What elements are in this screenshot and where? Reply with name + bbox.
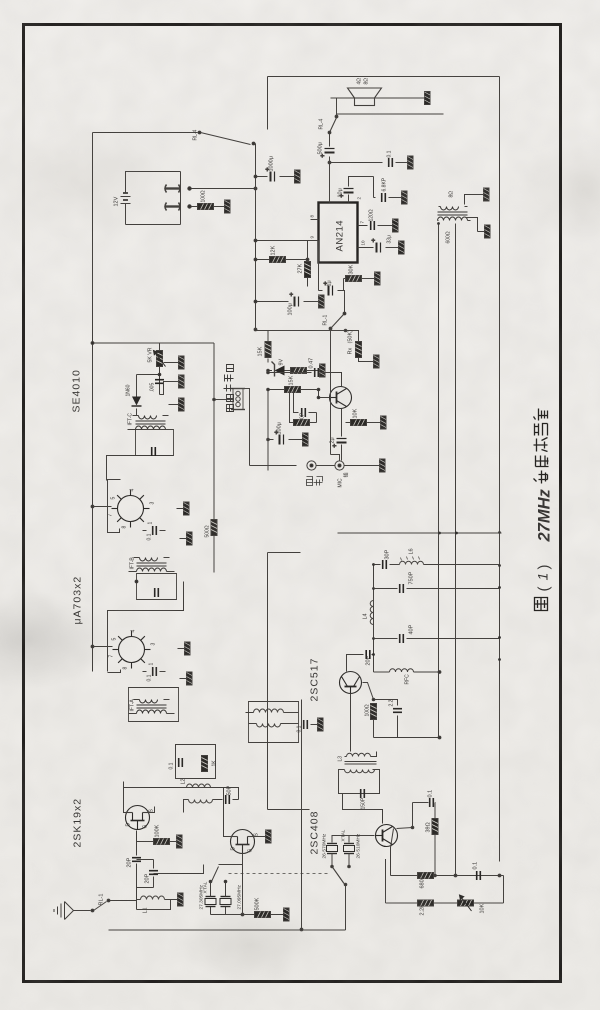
resistor base low — [293, 420, 317, 426]
mixer transformer T1 — [246, 702, 299, 743]
ground T1 — [311, 718, 324, 731]
label 500ohm 600P — [205, 523, 218, 537]
capacitor 2.2 bypass — [372, 698, 402, 737]
capacitor 0.1 b — [473, 862, 481, 880]
ground 100u b — [312, 295, 325, 308]
battery box — [126, 172, 181, 225]
wire to speaker line — [331, 98, 418, 115]
cross wire antenna link — [338, 532, 502, 534]
wire top box — [93, 132, 198, 134]
wire filter to mic line — [243, 389, 250, 466]
junction rail B — [454, 874, 457, 877]
transistor Q4 2SC517 — [340, 672, 362, 694]
switch RL-2 (xtal select) — [209, 865, 242, 883]
wire T2 ground b — [467, 218, 491, 239]
relay contact b — [165, 203, 192, 211]
decoupling box 1K/0.1 — [169, 745, 218, 779]
capacitor .005 — [150, 375, 165, 395]
junction IFT-B — [135, 580, 138, 583]
junction rail U1 — [91, 645, 94, 648]
node wire left of crystals — [211, 914, 259, 916]
wire L1 box — [137, 888, 171, 910]
wire T2 ground a — [465, 188, 490, 205]
long rail B — [455, 224, 457, 876]
ground 10K — [374, 416, 387, 429]
ground below 100K — [170, 835, 183, 848]
wire base node — [290, 390, 317, 423]
transistor Q3 preamp — [319, 373, 352, 435]
capacitor 0.1 U1 out — [143, 667, 166, 682]
resistor Rx 50K — [346, 330, 362, 358]
wire contact to rail — [191, 188, 256, 190]
capacitor 40P — [374, 624, 500, 643]
resistor bias — [291, 364, 326, 377]
junction rail C — [498, 874, 501, 877]
ground .005 — [160, 375, 185, 395]
transformer L2 — [124, 778, 221, 812]
wire top box right — [268, 76, 500, 78]
switch RL-4 out — [319, 115, 338, 134]
capacitor 0.1 PA — [0, 1009, 2, 1010]
source resistor wire — [143, 807, 155, 813]
resistor 10K emitter — [346, 408, 374, 425]
wire RX B+ line — [301, 700, 303, 930]
antenna ANT — [54, 902, 91, 920]
resistor 2.2K — [418, 900, 434, 916]
diode 1N60 — [126, 375, 142, 416]
wire gate Q2 to xtal switch — [242, 854, 244, 902]
ground U1 pin — [178, 642, 191, 655]
ground U2 cap — [180, 532, 193, 545]
wire base crystals — [332, 836, 375, 843]
jack J1 phone — [307, 461, 316, 470]
cap 6.8KP — [369, 177, 408, 205]
pin10 cap 33u — [358, 235, 405, 254]
wire rail to U2 — [93, 506, 112, 508]
IFT-B transformer — [129, 557, 177, 600]
label phone jack — [307, 477, 323, 486]
supply rail — [92, 133, 94, 672]
box 150P osc tank — [339, 770, 380, 810]
mech link dashed — [229, 873, 331, 875]
wire emitter return — [386, 737, 440, 739]
capacitor 30P — [374, 549, 400, 569]
wire rail to U1 — [93, 646, 113, 648]
capacitor 750P — [374, 571, 500, 593]
capacitor 0.1 — [179, 758, 183, 767]
capacitor 50P — [187, 785, 239, 804]
crystal X1 27.305MHz — [199, 882, 217, 915]
label MIC — [338, 472, 350, 487]
emitter rail vertical — [391, 875, 500, 877]
resistor 100K (gate bias) — [137, 824, 170, 844]
speaker SP — [348, 78, 382, 106]
AGC line — [213, 343, 215, 573]
electrolytic 2u — [330, 435, 347, 461]
zener diode 9V — [267, 358, 293, 376]
transformer T3 osc coupling — [338, 752, 377, 773]
ceramic filter unit — [231, 389, 245, 410]
switch RL-1 audio — [323, 291, 346, 461]
electrolytic 1000u — [254, 156, 300, 183]
capacitor 20P (2nd) — [137, 860, 159, 888]
ground U1 cap — [180, 672, 193, 685]
junction rail U2 — [91, 505, 94, 508]
transistor Q5 2SC408 — [376, 825, 398, 847]
IC U3 AN214 — [319, 203, 358, 263]
wire PA box link — [268, 809, 310, 811]
ground 5K — [164, 356, 185, 369]
pin 9 wire — [254, 236, 318, 242]
capacitor IFT-B tune — [155, 588, 159, 597]
wire filter to AGC — [214, 399, 233, 401]
capacitor 0.47 — [267, 358, 323, 377]
wire base T3 to Q4 — [350, 694, 352, 752]
IFT-A transformer — [129, 688, 179, 722]
FET Q2 2SK19 mixer — [231, 830, 260, 854]
wire collector to T3 — [343, 794, 383, 824]
crystal X3 26.570MHz — [322, 833, 338, 868]
coil L4 — [363, 601, 374, 625]
junction xtal-gate — [241, 913, 244, 916]
switch RL-1 — [91, 894, 110, 912]
ground 100u — [296, 433, 309, 446]
resistor 39ohm — [426, 819, 439, 877]
electrolytic 1u — [319, 279, 344, 296]
resistor 12K — [254, 245, 307, 262]
capacitor 0.1 osc — [397, 790, 436, 829]
wire U2 pin1 box — [108, 480, 121, 533]
wire Rx top — [268, 330, 346, 332]
wire gate node — [136, 831, 138, 842]
variable resistor VR 10K — [458, 895, 486, 914]
resistor 500ohm AGC — [211, 520, 217, 536]
capacitor 0.1 U2 — [143, 526, 166, 541]
wire to supply node — [93, 342, 215, 344]
battery 12V — [114, 187, 131, 207]
resistor 1K — [202, 756, 208, 772]
ground det junction — [0, 1009, 2, 1010]
wire 20P no2 to switch arm — [154, 865, 204, 874]
capacitor 20P — [127, 842, 142, 888]
output transformer T2 — [438, 191, 471, 244]
resistor 15K feed — [258, 331, 272, 363]
coil L6 antenna — [400, 548, 500, 564]
ground speaker — [418, 92, 431, 105]
volume pot 5K VR — [148, 343, 166, 375]
IC U1 uA703 — [109, 630, 157, 670]
switch RL-4 left — [193, 129, 256, 144]
paper grain overlay — [0, 0, 1, 1]
resistor 100ohm aux — [191, 190, 231, 213]
resistor 15K base — [267, 375, 320, 397]
wire Q4 collector — [347, 655, 364, 672]
wire drain Q2 — [224, 788, 238, 837]
resistor 27K — [298, 241, 319, 287]
wire U1 feedback box — [108, 582, 184, 672]
ground below 500K — [271, 908, 290, 921]
capacitor 0.1 T1 — [297, 720, 308, 733]
resistor 500K — [255, 897, 271, 917]
cap 0.1 out — [328, 150, 413, 169]
wire preamp feed line — [267, 390, 269, 471]
ground Rx — [359, 355, 380, 368]
IFT-C transformer — [128, 413, 174, 456]
pin 8 wire — [310, 215, 319, 220]
capacitor 750P — [294, 390, 317, 425]
wire emitter down — [391, 829, 394, 876]
wire drain to L2 — [124, 782, 133, 813]
wire U1 pin1 box — [108, 670, 121, 673]
wire diode to det line — [137, 374, 160, 376]
electrolytic 500u — [318, 133, 335, 203]
FET Q1 2SK19 — [126, 806, 155, 830]
long antenna return wire — [109, 885, 346, 931]
capacitor 20P — [366, 650, 374, 666]
main supply rail — [255, 144, 257, 330]
long rail C — [499, 77, 501, 862]
coil L1 — [137, 896, 171, 914]
junction dots rail C — [437, 222, 501, 661]
switch TX xtal — [332, 867, 347, 931]
ground IFT-C secondary — [169, 398, 185, 411]
label Chinese (noise limiter) — [224, 365, 234, 412]
coil RFC — [374, 669, 441, 685]
ground jacks — [316, 459, 385, 472]
electrolytic 100u — [267, 422, 296, 444]
jack J2 MIC — [335, 461, 344, 470]
crystal X2 27.095MHz — [203, 881, 243, 914]
tank line — [373, 565, 375, 673]
wire IFT-C to U2 area — [107, 456, 136, 481]
electrolytic 100u b — [254, 293, 311, 316]
capacitor IFT-C tune — [152, 447, 156, 456]
wire supply to preamp — [256, 330, 269, 332]
ground below L1 — [171, 893, 184, 906]
ground Q2 source — [248, 830, 272, 843]
resistor 680ohm — [418, 873, 434, 889]
crystal X4 26.510MHz — [341, 829, 362, 868]
ground Q3 collector res — [0, 1009, 2, 1010]
resistor emitter 100ohm — [363, 683, 377, 738]
wire bias line — [385, 859, 387, 903]
resistor 30K — [344, 264, 381, 285]
long rail A — [438, 224, 440, 738]
wire PA top rail — [268, 553, 301, 810]
pin2 cap 10u — [338, 177, 369, 203]
pin7 cap 130ohm — [358, 209, 399, 232]
wire antenna node to L1 — [110, 888, 137, 901]
relay contact a — [165, 185, 192, 193]
bias rail vertical — [386, 876, 504, 904]
ground U2 pin — [177, 502, 190, 515]
caption 圖(1) 27MHz 收發機線路 (CJK approximated) — [534, 409, 554, 611]
IC U2 uA703 — [108, 489, 156, 529]
